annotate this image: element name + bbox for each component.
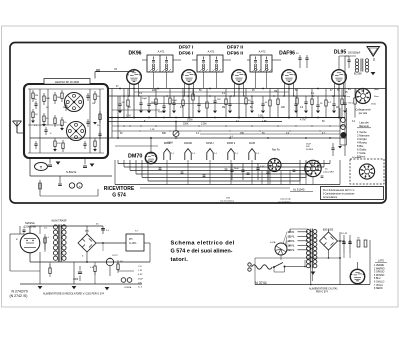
svg-text:2 MARRO.: 2 MARRO. — [374, 267, 386, 270]
svg-text:DF96 I: DF96 I — [179, 51, 194, 57]
svg-text:2M: 2M — [222, 107, 225, 109]
svg-text:8 NERO: 8 NERO — [374, 288, 383, 290]
svg-text:MASSA: MASSA — [25, 221, 35, 225]
svg-text:DAF96: DAF96 — [184, 142, 192, 145]
svg-text:1000: 1000 — [73, 279, 79, 281]
svg-text:4 ROSSO: 4 ROSSO — [374, 275, 385, 277]
svg-text:S.P.A.: S.P.A. — [270, 241, 276, 244]
svg-text:7 Viola: 7 Viola — [357, 151, 366, 155]
svg-text:N 3741: N 3741 — [255, 281, 267, 285]
svg-text:Collegamenti: Collegamenti — [355, 108, 371, 112]
svg-text:AL 51040: AL 51040 — [293, 188, 305, 192]
svg-text:20pF: 20pF — [142, 98, 148, 100]
svg-text:N 2742/70: N 2742/70 — [12, 290, 28, 294]
svg-text:-: - — [72, 184, 73, 188]
svg-text:1 VERDE: 1 VERDE — [374, 265, 384, 267]
svg-text:5K: 5K — [128, 107, 131, 109]
svg-text:filamenti: filamenti — [359, 124, 369, 128]
svg-text:100pF: 100pF — [151, 102, 158, 104]
svg-text:2.2M: 2.2M — [201, 123, 206, 126]
svg-text:6.3V: 6.3V — [138, 274, 143, 276]
svg-text:DF97 I: DF97 I — [179, 45, 194, 51]
svg-text:220 V.: 220 V. — [288, 249, 295, 252]
svg-text:S.822 E: S.822 E — [66, 170, 76, 174]
svg-text:tatori.: tatori. — [171, 257, 189, 263]
svg-text:antina 5R3: antina 5R3 — [323, 171, 334, 174]
svg-text:DF96 I: DF96 I — [206, 142, 214, 145]
svg-text:160 V.: 160 V. — [288, 244, 295, 247]
svg-text:(N 2742 /S): (N 2742 /S) — [10, 294, 28, 298]
svg-text:140 V.: 140 V. — [288, 240, 295, 243]
svg-text:2M: 2M — [35, 95, 38, 97]
svg-text:6.3V: 6.3V — [260, 166, 265, 168]
svg-text:3 GRIGIO: 3 GRIGIO — [374, 272, 385, 274]
svg-text:LELP/10 SP 10 2400: LELP/10 SP 10 2400 — [55, 80, 80, 84]
svg-text:Rav Fix: Rav Fix — [272, 150, 281, 152]
svg-text:4 Rosso: 4 Rosso — [357, 140, 368, 144]
svg-text:Lato dei: Lato dei — [359, 121, 369, 125]
svg-text:per pile: per pile — [359, 111, 368, 115]
svg-text:G 574 e dei suoi alimen-: G 574 e dei suoi alimen- — [171, 249, 233, 255]
svg-text:1.5K: 1.5K — [262, 121, 267, 123]
svg-text:1 Verde: 1 Verde — [357, 130, 367, 134]
svg-text:3 Grigio: 3 Grigio — [357, 137, 367, 141]
svg-text:DL95: DL95 — [334, 50, 346, 56]
svg-text:DF96 II: DF96 II — [227, 51, 244, 57]
svg-text:3M: 3M — [57, 97, 60, 99]
svg-text:ALIMENTATORE DI REGOLATORE: ALIMENTATORE DI REGOLATORE V.I 23/2 PER … — [43, 292, 105, 295]
svg-text:A.472: A.472 — [259, 50, 266, 54]
svg-text:Per il funzionamento 110 V c.c: Per il funzionamento 110 V c.c. — [323, 189, 355, 192]
svg-text:Verde: Verde — [371, 104, 377, 106]
svg-text:5 BLU: 5 BLU — [374, 278, 381, 280]
svg-text:10K: 10K — [281, 107, 286, 109]
svg-text:5 Blu: 5 Blu — [357, 144, 364, 148]
svg-text:47: 47 — [114, 67, 118, 71]
svg-text:7 VIOLA: 7 VIOLA — [374, 284, 383, 287]
svg-text:2 Marrone: 2 Marrone — [357, 133, 370, 137]
svg-text:50K: 50K — [46, 98, 50, 100]
svg-text:320/1000pF: 320/1000pF — [348, 53, 361, 55]
svg-text:220K: 220K — [183, 123, 189, 126]
svg-text:RICEVITORE: RICEVITORE — [104, 186, 135, 192]
svg-text:accumulatori: accumulatori — [278, 200, 291, 203]
svg-text:DL95: DL95 — [249, 142, 256, 145]
svg-text:0.1M: 0.1M — [187, 118, 192, 121]
svg-text:solo per gli: solo per gli — [280, 198, 291, 201]
svg-text:DK96: DK96 — [164, 142, 171, 145]
svg-text:125 V.: 125 V. — [288, 235, 295, 238]
svg-text:Schema elettrico del: Schema elettrico del — [171, 241, 235, 247]
svg-text:LATO: LATO — [378, 260, 384, 263]
svg-text:Bru: Bru — [348, 89, 351, 91]
svg-text:8 Nero: 8 Nero — [357, 155, 366, 159]
svg-text:10 K: 10 K — [126, 114, 131, 117]
svg-text:110 V.: 110 V. — [288, 231, 295, 234]
svg-text:+: + — [79, 184, 81, 188]
svg-text:ALIM.TRASF: ALIM.TRASF — [51, 218, 67, 222]
svg-text:50K: 50K — [162, 133, 167, 135]
svg-text:EL 509: EL 509 — [354, 73, 362, 76]
svg-text:30V: 30V — [306, 146, 310, 148]
svg-text:OC72: OC72 — [112, 255, 118, 257]
svg-text:N.4900: N.4900 — [306, 149, 314, 151]
svg-text:1K: 1K — [336, 107, 339, 109]
svg-text:A.471: A.471 — [158, 50, 165, 54]
svg-text:PER G 574: PER G 574 — [316, 292, 328, 294]
svg-text:PH: PH — [129, 238, 133, 241]
svg-text:ALIMENTATORE CA 3741: ALIMENTATORE CA 3741 — [309, 287, 338, 290]
svg-text:12V: 12V — [138, 282, 142, 284]
svg-text:6 Giallo: 6 Giallo — [357, 148, 367, 152]
svg-text:12K: 12K — [217, 99, 221, 101]
svg-text:G.1PG: G.1PG — [129, 242, 136, 245]
svg-text:il Cambiatensione in posizione: il Cambiatensione in posizione — [323, 193, 355, 196]
svg-text:DF96 II: DF96 II — [227, 142, 236, 145]
svg-text:DM70: DM70 — [128, 154, 142, 160]
svg-text:25uF: 25uF — [138, 278, 144, 280]
svg-text:anti-microfonico: anti-microfonico — [220, 199, 235, 202]
svg-text:DAF96: DAF96 — [279, 51, 295, 57]
svg-text:25pF: 25pF — [172, 100, 178, 102]
svg-text:DF97 II: DF97 II — [227, 45, 244, 51]
svg-text:CUFFIA: CUFFIA — [124, 286, 132, 289]
svg-text:1M: 1M — [92, 103, 95, 105]
svg-text:Accumulatore: Accumulatore — [323, 196, 338, 199]
svg-text:A.471: A.471 — [208, 50, 215, 54]
svg-text:4.7M: 4.7M — [300, 118, 305, 121]
svg-text:DK96: DK96 — [128, 51, 141, 57]
svg-text:25uF: 25uF — [306, 144, 312, 146]
svg-text:6 GIALLO: 6 GIALLO — [374, 281, 385, 284]
svg-text:H.56KT: H.56KT — [158, 112, 166, 114]
svg-text:25uF: 25uF — [234, 168, 240, 170]
svg-text:G 574: G 574 — [112, 193, 126, 199]
svg-text:1.2K: 1.2K — [150, 129, 155, 131]
svg-text:32+32: 32+32 — [341, 233, 348, 235]
